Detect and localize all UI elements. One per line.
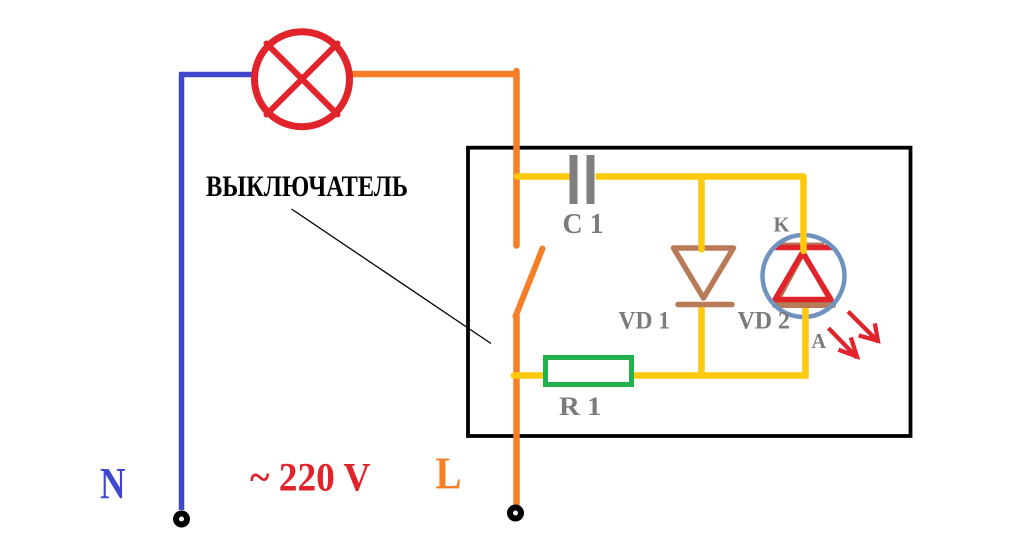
wire yellow below diode: [698, 305, 705, 376]
LED VD2 circle: [763, 235, 845, 317]
box enclosure: [468, 148, 911, 436]
wire yellow top right segment: [596, 173, 804, 180]
svg-text:N: N: [100, 459, 126, 508]
diode VD1: [674, 248, 734, 305]
wire yellow right vertical to LED: [800, 177, 807, 252]
light emission arrow 2: [850, 313, 878, 341]
terminal N: [176, 514, 187, 525]
light emission arrow 1: [830, 330, 857, 357]
resistor R1: [546, 358, 632, 385]
wire yellow diode branch vertical: [698, 177, 705, 250]
wire orange L top horizontal: [352, 71, 517, 78]
svg-text:ВЫКЛЮЧАТЕЛЬ: ВЫКЛЮЧАТЕЛЬ: [206, 170, 408, 203]
capacitor C1 plates: [570, 155, 595, 204]
svg-text:A: A: [812, 329, 827, 353]
lamp HL1 circle: [255, 32, 350, 127]
wire yellow bottom right segment: [633, 372, 809, 379]
svg-text:R 1: R 1: [559, 392, 602, 421]
svg-text:C 1: C 1: [563, 209, 604, 240]
wire orange L vertical into box: [513, 71, 520, 246]
svg-text:VD 1: VD 1: [619, 308, 671, 335]
svg-text:K: K: [774, 213, 791, 237]
wire orange L lower vertical: [513, 315, 520, 505]
LED VD2 brown underlay: [775, 245, 834, 306]
LED VD2 red symbol: [775, 248, 832, 300]
wire yellow top left segment: [517, 173, 569, 180]
wire yellow LED bottom vertical: [802, 308, 809, 376]
svg-text:VD 2: VD 2: [738, 308, 791, 335]
terminal L: [510, 508, 521, 519]
switch blade: [516, 249, 543, 317]
wire blue N vertical: [179, 75, 185, 511]
wire yellow bottom left segment: [514, 372, 545, 379]
wire blue N horizontal to lamp: [179, 72, 253, 78]
svg-text:~ 220 V: ~ 220 V: [250, 455, 371, 500]
label pointer line: [292, 209, 492, 344]
svg-text:L: L: [436, 449, 462, 499]
lamp HL1 cross: [267, 44, 338, 115]
